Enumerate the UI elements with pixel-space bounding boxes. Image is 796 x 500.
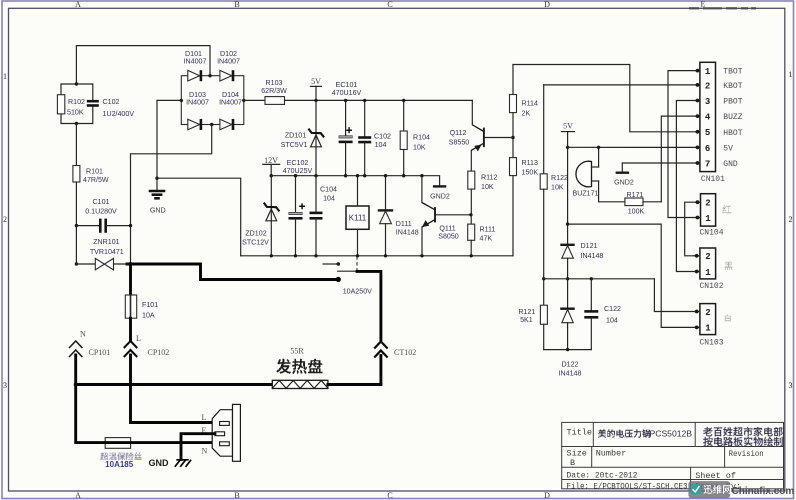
node EC101 top	[344, 99, 347, 102]
svg-text:470U25V: 470U25V	[283, 167, 313, 175]
svg-text:1U2/400V: 1U2/400V	[103, 110, 135, 118]
svg-text:1: 1	[705, 67, 711, 77]
wire: R121 node line	[544, 278, 655, 280]
thermal fuse 10A185 超温保险丝	[100, 438, 219, 469]
svg-text:File: E/PCBTOOLS/ST-SCH.CE3: File: E/PCBTOOLS/ST-SCH.CE3	[567, 481, 688, 491]
watermark smudge top right	[689, 7, 756, 9]
resistor R101	[73, 166, 109, 185]
ruler letters bottom	[75, 491, 550, 500]
svg-text:2: 2	[705, 199, 710, 209]
node D122 top	[566, 277, 569, 280]
svg-text:D122: D122	[562, 361, 579, 369]
node D122 bottom	[566, 348, 569, 351]
svg-text:47R/5W: 47R/5W	[83, 176, 109, 184]
node bridge right mid	[242, 99, 245, 102]
wire (bold): CP101 down to thermal fuse line	[76, 355, 106, 443]
svg-text:STC5V1: STC5V1	[281, 141, 308, 149]
wire: top AC from R102 to bridge	[76, 46, 210, 84]
resistor R103 62R/3W	[244, 79, 287, 104]
connector CT102	[374, 342, 416, 385]
node bridge left mid	[180, 99, 183, 102]
svg-text:Q111: Q111	[439, 224, 455, 232]
svg-text:1: 1	[789, 70, 793, 79]
capacitor EC101 470U16V (electrolytic)	[332, 81, 362, 176]
svg-text:B: B	[570, 458, 575, 468]
svg-text:R113: R113	[522, 159, 538, 167]
resistor R112 10K	[468, 150, 498, 215]
power symbol 5V (right)	[561, 122, 574, 148]
node D121 branch	[566, 222, 569, 225]
connector CP102 (L)	[124, 334, 169, 357]
node C101 left	[75, 224, 78, 227]
svg-text:1: 1	[705, 268, 711, 278]
svg-text:10K: 10K	[551, 183, 564, 191]
capacitor C122 104	[584, 279, 621, 350]
svg-text:CN101: CN101	[701, 175, 725, 184]
svg-text:10A: 10A	[142, 312, 155, 320]
svg-text:C: C	[387, 491, 392, 500]
wire: node line to CN103 pin2	[654, 279, 696, 312]
resistor R122 10K	[540, 85, 568, 279]
wire: CN104 pin2 to CN102 pin2	[685, 202, 698, 256]
svg-text:2: 2	[789, 215, 793, 224]
svg-text:R122: R122	[551, 174, 568, 182]
node bus EC102	[294, 254, 297, 257]
node R104 top	[402, 99, 405, 102]
svg-text:A: A	[75, 491, 81, 500]
svg-text:C: C	[387, 0, 392, 9]
wire: KBOT pin2 line	[544, 84, 698, 86]
node bus K111	[356, 254, 359, 257]
svg-text:N: N	[80, 330, 86, 339]
svg-text:10A250V: 10A250V	[343, 288, 372, 296]
svg-text:B: B	[234, 491, 239, 500]
bridge rectifier frame	[181, 76, 244, 125]
svg-text:F101: F101	[142, 301, 158, 309]
diode D121 IN4148	[560, 147, 603, 278]
wire: BUZZ pin4 via R171	[661, 116, 697, 202]
svg-text:BUZ171: BUZ171	[572, 189, 598, 197]
svg-text:IN4148: IN4148	[559, 370, 582, 378]
zener ZD102 STC12V	[242, 176, 279, 256]
node bus ZD102	[270, 254, 273, 257]
zener ZD101 STC5V1	[281, 100, 325, 175]
svg-text:C122: C122	[604, 305, 621, 313]
resistor R121 5K1	[518, 279, 547, 350]
node bus R111	[470, 254, 473, 257]
svg-text:R114: R114	[522, 100, 538, 108]
svg-text:GND: GND	[150, 207, 166, 215]
diode D103 IN4007	[186, 91, 209, 130]
svg-text:CN103: CN103	[700, 339, 724, 348]
svg-text:IN4007: IN4007	[217, 57, 240, 65]
connector CN103	[695, 304, 731, 348]
svg-text:R112: R112	[481, 173, 497, 181]
relay K111	[346, 176, 369, 256]
transistor Q112 S8550	[449, 100, 513, 151]
svg-text:KBOT: KBOT	[723, 82, 742, 91]
svg-text:2K: 2K	[522, 109, 531, 117]
wire: left rail R101 to C101 node	[75, 182, 77, 226]
svg-text:BUZZ: BUZZ	[723, 113, 742, 122]
svg-text:C102: C102	[103, 98, 120, 106]
node 5V stub	[566, 146, 569, 149]
node live column top	[129, 262, 133, 266]
svg-text:D121: D121	[581, 242, 598, 250]
node 5V/ZD101	[314, 99, 317, 102]
node C101 right	[129, 224, 132, 227]
node C102b top	[363, 99, 366, 102]
svg-text:A: A	[75, 0, 81, 9]
power symbol 12V	[263, 156, 280, 176]
wire: bridge negative to GND and ground bus drop	[157, 100, 241, 255]
diode D104 IN4007	[219, 91, 242, 130]
svg-text:3: 3	[705, 97, 710, 107]
wire: PBOT pin3 to CN102 pin1	[676, 101, 697, 272]
title block	[562, 422, 784, 488]
svg-text:CP102: CP102	[148, 348, 170, 357]
svg-text:2: 2	[705, 81, 710, 91]
svg-text:ZD102: ZD102	[245, 229, 266, 237]
svg-text:2: 2	[3, 215, 7, 224]
svg-text:TBOT: TBOT	[723, 68, 742, 77]
svg-text:Title: Title	[567, 428, 593, 438]
node Q111 base / R112-R111	[469, 213, 472, 216]
wire: bridge AC2 down-left to live column	[131, 125, 212, 265]
ground GND (main)	[149, 178, 166, 214]
svg-text:10K: 10K	[413, 144, 426, 152]
connector CN102	[695, 248, 733, 291]
wire: R114 top to HBOT pin5	[513, 65, 698, 132]
node GND stub	[155, 177, 158, 180]
svg-text:7: 7	[705, 159, 710, 169]
wire (bold): contact to CT102	[357, 271, 381, 340]
svg-text:2: 2	[705, 252, 710, 262]
svg-text:1: 1	[705, 324, 711, 334]
svg-text:104: 104	[323, 194, 335, 202]
fuse F101 10A	[125, 264, 158, 341]
diode D122 IN4148	[559, 279, 582, 378]
node C122 top	[590, 277, 593, 280]
ruler numbers right	[789, 70, 793, 390]
svg-text:L: L	[202, 413, 207, 422]
capacitor C101 (0.1U280V)	[76, 198, 130, 233]
svg-text:IN4007: IN4007	[186, 99, 209, 107]
wire (bold): CP102 to plug L	[131, 355, 220, 423]
svg-text:GND2: GND2	[614, 178, 634, 186]
svg-text:12V: 12V	[264, 156, 278, 165]
svg-text:IN4148: IN4148	[581, 252, 604, 260]
svg-text:Date: 20tc-2012: Date: 20tc-2012	[567, 471, 638, 481]
power inlet plug	[202, 404, 241, 461]
node C104 top / ZD101 bottom	[314, 174, 317, 177]
wire: ZNR101 to live column	[114, 263, 129, 265]
node ZNR101 left	[75, 262, 78, 265]
svg-text:R102: R102	[68, 98, 85, 106]
wire: 5V to CN101 pin6	[568, 146, 698, 148]
node bridge top center	[208, 74, 211, 77]
wire: RC bottom line	[544, 349, 592, 351]
svg-text:4: 4	[705, 113, 711, 123]
svg-text:Size: Size	[567, 449, 587, 459]
svg-text:GND: GND	[149, 458, 170, 468]
wire: 12V rail	[271, 176, 439, 186]
wire: 5V rail	[285, 99, 473, 101]
wire (bold): plug E to earth	[181, 434, 215, 460]
svg-text:CN102: CN102	[700, 282, 724, 291]
svg-text:GND: GND	[723, 160, 738, 169]
svg-text:Q112: Q112	[450, 129, 467, 137]
svg-text:5V: 5V	[563, 122, 573, 131]
ground GND2 (right, to pin7)	[614, 163, 697, 186]
power symbol 5V (left)	[311, 77, 322, 100]
heater element 55R 发热盘	[272, 347, 328, 389]
node bridge bottom center	[210, 123, 213, 126]
relay contact 10A250V	[323, 257, 372, 296]
node Q112 base	[511, 136, 514, 139]
svg-text:55R: 55R	[290, 347, 304, 356]
svg-text:5: 5	[705, 128, 710, 138]
svg-text:B: B	[234, 0, 239, 9]
capacitor EC102 470U25V	[283, 159, 313, 256]
svg-text:IN4007: IN4007	[219, 99, 242, 107]
wire: left rail C101 node to ZNR node	[75, 226, 77, 264]
svg-text:CP101: CP101	[89, 348, 111, 357]
wire (bold): live feed to contact	[127, 264, 341, 282]
diode D101 IN4007	[184, 50, 207, 81]
node EC102 top	[294, 174, 297, 177]
resistor R111 47K	[468, 215, 496, 256]
svg-text:PBOT: PBOT	[723, 98, 742, 107]
node 12V/ZD102	[270, 174, 273, 177]
wire: TBOT pin1 to CN104 pin1	[668, 71, 698, 218]
svg-text:104: 104	[606, 317, 618, 325]
svg-text:K111: K111	[349, 214, 367, 223]
svg-text:47K: 47K	[480, 235, 493, 243]
svg-text:EC102: EC102	[287, 159, 309, 167]
svg-text:62R/3W: 62R/3W	[261, 87, 287, 95]
svg-text:Number: Number	[596, 449, 627, 459]
svg-text:STC12V: STC12V	[242, 239, 269, 247]
svg-text:470U16V: 470U16V	[332, 89, 362, 97]
varistor ZNR101 TVR10471	[76, 238, 123, 270]
node bus C104	[314, 254, 317, 257]
svg-text:PCS5012B: PCS5012B	[650, 429, 693, 439]
node R104 bottom	[402, 174, 405, 177]
transistor Q111 S8050	[422, 176, 471, 256]
svg-text:S8550: S8550	[449, 139, 470, 147]
svg-text:CN104: CN104	[700, 229, 724, 238]
node C102b bottom	[363, 174, 366, 177]
svg-text:2: 2	[705, 308, 710, 318]
svg-text:3: 3	[789, 381, 793, 390]
svg-text:ZNR101: ZNR101	[93, 238, 119, 246]
earth ground at plug	[149, 458, 192, 468]
svg-text:R121: R121	[518, 308, 535, 316]
svg-text:C101: C101	[93, 198, 110, 206]
svg-text:100K: 100K	[628, 208, 645, 216]
svg-text:ZD101: ZD101	[285, 132, 306, 140]
svg-text:IN4007: IN4007	[184, 57, 207, 65]
svg-text:D: D	[544, 0, 550, 9]
svg-text:IN4148: IN4148	[396, 229, 419, 237]
wire (bold): heater right to CT102	[328, 383, 381, 386]
svg-text:R103: R103	[266, 79, 283, 87]
ground GND2 (end of 12V rail)	[430, 186, 450, 200]
node buzzer top branch	[597, 146, 600, 149]
ruler numbers left	[3, 72, 7, 390]
connector CN104	[696, 194, 732, 238]
node top of R102	[75, 82, 78, 85]
watermark bottom right	[688, 481, 794, 498]
svg-text:N: N	[202, 447, 208, 456]
diode D111 IN4148	[378, 176, 419, 256]
svg-text:510K: 510K	[67, 109, 84, 117]
resistor R102 with parallel C102 loop	[57, 84, 92, 124]
svg-text:10A185: 10A185	[105, 460, 134, 469]
svg-text:10K: 10K	[481, 183, 494, 191]
svg-text:0.1U280V: 0.1U280V	[85, 208, 117, 216]
svg-text:C104: C104	[320, 186, 337, 194]
svg-text:R171: R171	[627, 191, 644, 199]
resistor R113 150K	[510, 138, 539, 256]
node R121 top	[542, 277, 545, 280]
node heater tee	[74, 383, 78, 387]
connector CN101	[696, 62, 743, 184]
wire (bold): heater line left	[76, 383, 273, 386]
svg-text:R104: R104	[413, 134, 430, 142]
node K111 top	[356, 174, 359, 177]
node D111 top	[384, 174, 387, 177]
wire: left rail R102 to R101	[75, 124, 77, 166]
node EC101 bottom	[344, 174, 347, 177]
resistor R104 10K	[400, 100, 430, 175]
svg-text:EC101: EC101	[336, 81, 358, 89]
buzzer BUZ171	[572, 147, 598, 202]
svg-text:1: 1	[3, 72, 7, 81]
svg-text:Sheet of: Sheet of	[695, 471, 736, 481]
diode D102 IN4007	[217, 50, 240, 81]
svg-text:R101: R101	[86, 168, 103, 176]
svg-text:C102: C102	[374, 133, 391, 141]
svg-text:6: 6	[705, 144, 710, 154]
svg-text:CT102: CT102	[394, 348, 416, 357]
svg-text:5K1: 5K1	[520, 316, 533, 324]
svg-text:3: 3	[3, 381, 7, 390]
svg-text:D: D	[544, 491, 550, 500]
wire: ground bus	[241, 255, 513, 257]
node bottom of R102	[75, 122, 78, 125]
ruler letters top	[75, 0, 705, 9]
node bus Q111 emitter	[420, 254, 423, 257]
svg-text:GND2: GND2	[430, 192, 450, 200]
capacitor C102 (1U2/400V)	[87, 98, 135, 118]
svg-text:R111: R111	[480, 225, 496, 233]
svg-text:D111: D111	[396, 220, 412, 228]
node bus D111	[384, 254, 387, 257]
svg-text:1: 1	[705, 214, 711, 224]
resistor R114 2K	[510, 65, 538, 138]
capacitor C104 104	[310, 176, 338, 256]
svg-text:HBOT: HBOT	[723, 129, 742, 138]
resistor R171 100K	[599, 191, 662, 216]
svg-text:S8050: S8050	[438, 233, 459, 241]
wire: D121 node to CN103 pin1	[568, 224, 697, 327]
node Q111 collector at 12V rail	[420, 174, 423, 177]
svg-text:5V: 5V	[723, 144, 733, 153]
svg-text:L: L	[136, 334, 141, 343]
svg-text:150K: 150K	[522, 169, 539, 177]
svg-text:104: 104	[375, 141, 387, 149]
svg-text:Chinafix.com: Chinafix.com	[732, 486, 795, 497]
svg-text:Revision: Revision	[729, 449, 764, 459]
svg-text:5V: 5V	[311, 77, 321, 86]
svg-text:TVR10471: TVR10471	[90, 248, 124, 256]
connector CP101 (N)	[69, 330, 110, 358]
capacitor C102b 104	[358, 100, 391, 175]
